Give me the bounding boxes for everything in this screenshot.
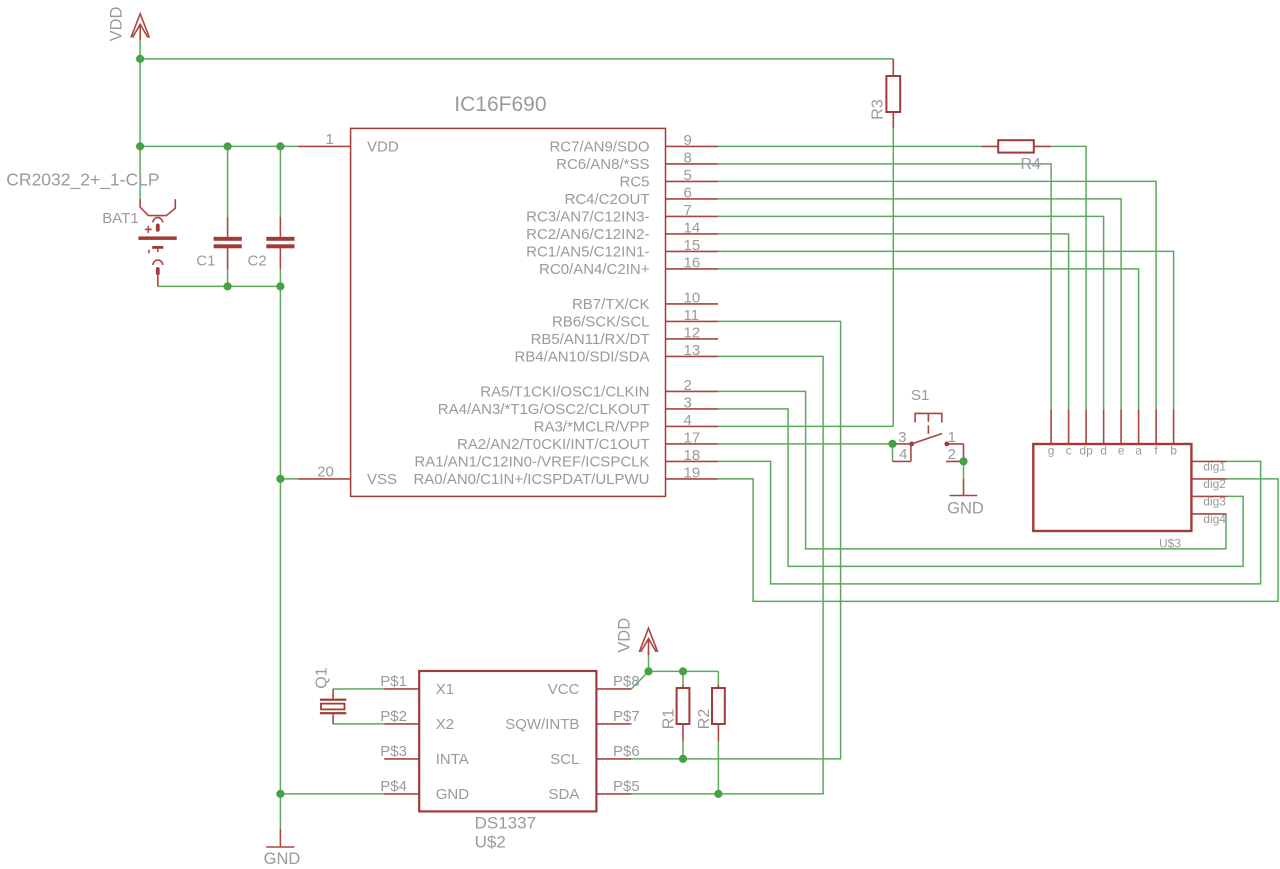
- svg-text:a: a: [1135, 444, 1142, 458]
- svg-text:GND: GND: [264, 850, 301, 868]
- svg-text:19: 19: [684, 465, 701, 482]
- svg-text:c: c: [1066, 444, 1072, 458]
- svg-text:SCL: SCL: [550, 751, 579, 768]
- svg-text:RC6/AN8/*SS: RC6/AN8/*SS: [556, 156, 649, 173]
- svg-text:U$2: U$2: [475, 832, 506, 851]
- svg-text:dig1: dig1: [1203, 459, 1226, 473]
- svg-text:RB6/SCK/SCL: RB6/SCK/SCL: [552, 314, 650, 331]
- svg-text:10: 10: [684, 290, 701, 307]
- svg-text:2: 2: [948, 446, 956, 463]
- svg-text:RC2/AN6/C12IN2-: RC2/AN6/C12IN2-: [526, 226, 649, 243]
- svg-text:RC1/AN5/C12IN1-: RC1/AN5/C12IN1-: [526, 244, 649, 261]
- svg-text:P$2: P$2: [380, 708, 407, 725]
- svg-text:U$3: U$3: [1159, 537, 1181, 551]
- svg-text:BAT1: BAT1: [102, 210, 138, 227]
- svg-text:RC0/AN4/C2IN+: RC0/AN4/C2IN+: [539, 261, 650, 278]
- svg-text:R2: R2: [696, 709, 713, 730]
- svg-text:P$8: P$8: [613, 673, 640, 690]
- svg-text:INTA: INTA: [436, 751, 469, 768]
- svg-text:VDD: VDD: [616, 618, 634, 653]
- svg-text:P$7: P$7: [613, 708, 640, 725]
- svg-text:C2: C2: [248, 253, 267, 270]
- svg-text:VCC: VCC: [548, 681, 580, 698]
- svg-text:R3: R3: [870, 99, 887, 120]
- svg-text:R1: R1: [661, 709, 678, 730]
- svg-text:DS1337: DS1337: [475, 814, 536, 833]
- svg-text:8: 8: [684, 150, 692, 167]
- svg-text:dig2: dig2: [1203, 477, 1226, 491]
- svg-text:IC16F690: IC16F690: [454, 93, 546, 116]
- svg-text:P$6: P$6: [613, 743, 640, 760]
- svg-text:4: 4: [899, 446, 907, 463]
- svg-text:RC3/AN7/C12IN3-: RC3/AN7/C12IN3-: [526, 209, 649, 226]
- svg-text:CR2032_2+_1-CLP: CR2032_2+_1-CLP: [6, 169, 159, 190]
- svg-text:3: 3: [898, 429, 906, 446]
- svg-text:dig4: dig4: [1203, 512, 1226, 526]
- svg-text:dig3: dig3: [1203, 494, 1226, 508]
- svg-text:b: b: [1170, 444, 1177, 458]
- svg-text:P$5: P$5: [613, 778, 640, 795]
- svg-text:17: 17: [684, 430, 701, 447]
- svg-text:RA3/*MCLR/VPP: RA3/*MCLR/VPP: [534, 419, 650, 436]
- svg-text:SDA: SDA: [549, 786, 580, 803]
- svg-text:d: d: [1100, 444, 1107, 458]
- svg-text:RC5: RC5: [619, 174, 649, 191]
- svg-text:RC4/C2OUT: RC4/C2OUT: [564, 191, 649, 208]
- svg-text:C1: C1: [196, 253, 215, 270]
- svg-text:GND: GND: [947, 500, 984, 518]
- svg-text:S1: S1: [911, 387, 929, 404]
- svg-text:4: 4: [684, 412, 692, 429]
- svg-text:R4: R4: [1021, 156, 1042, 173]
- svg-text:RA5/T1CKI/OSC1/CLKIN: RA5/T1CKI/OSC1/CLKIN: [480, 384, 649, 401]
- svg-text:7: 7: [684, 202, 692, 219]
- svg-text:P$3: P$3: [380, 743, 407, 760]
- svg-text:12: 12: [684, 325, 701, 342]
- svg-text:GND: GND: [436, 786, 470, 803]
- svg-text:16: 16: [684, 255, 701, 272]
- svg-text:RA1/AN1/C12IN0-/VREF/ICSPCLK: RA1/AN1/C12IN0-/VREF/ICSPCLK: [414, 454, 649, 471]
- svg-text:3: 3: [684, 395, 692, 412]
- svg-text:RB4/AN10/SDI/SDA: RB4/AN10/SDI/SDA: [514, 349, 649, 366]
- svg-text:RA0/AN0/C1IN+/ICSPDAT/ULPWU: RA0/AN0/C1IN+/ICSPDAT/ULPWU: [413, 471, 649, 488]
- svg-text:e: e: [1118, 444, 1125, 458]
- svg-text:9: 9: [684, 132, 692, 149]
- svg-text:2: 2: [684, 377, 692, 394]
- svg-text:20: 20: [317, 463, 334, 480]
- svg-text:X1: X1: [436, 681, 454, 698]
- svg-text:1: 1: [325, 131, 333, 148]
- svg-text:VDD: VDD: [367, 139, 399, 156]
- svg-text:RC7/AN9/SDO: RC7/AN9/SDO: [549, 139, 649, 156]
- svg-text:RA2/AN2/T0CKI/INT/C1OUT: RA2/AN2/T0CKI/INT/C1OUT: [457, 436, 650, 453]
- svg-text:dp: dp: [1079, 444, 1093, 458]
- svg-text:6: 6: [684, 185, 692, 202]
- svg-text:Q1: Q1: [314, 667, 331, 688]
- svg-text:VSS: VSS: [367, 471, 397, 488]
- svg-text:RB7/TX/CK: RB7/TX/CK: [572, 296, 650, 313]
- svg-text:VDD: VDD: [107, 6, 125, 41]
- svg-text:14: 14: [684, 220, 701, 237]
- svg-text:X2: X2: [436, 716, 454, 733]
- svg-text:RA4/AN3/*T1G/OSC2/CLKOUT: RA4/AN3/*T1G/OSC2/CLKOUT: [438, 401, 650, 418]
- svg-text:1: 1: [948, 429, 956, 446]
- svg-text:P$4: P$4: [380, 778, 407, 795]
- svg-text:5: 5: [684, 167, 692, 184]
- svg-text:P$1: P$1: [380, 673, 407, 690]
- svg-text:15: 15: [684, 237, 701, 254]
- svg-text:18: 18: [684, 447, 701, 464]
- svg-text:SQW/INTB: SQW/INTB: [505, 716, 579, 733]
- svg-text:11: 11: [684, 307, 700, 324]
- svg-text:13: 13: [684, 342, 701, 359]
- svg-text:g: g: [1048, 444, 1055, 458]
- svg-text:RB5/AN11/RX/DT: RB5/AN11/RX/DT: [531, 331, 650, 348]
